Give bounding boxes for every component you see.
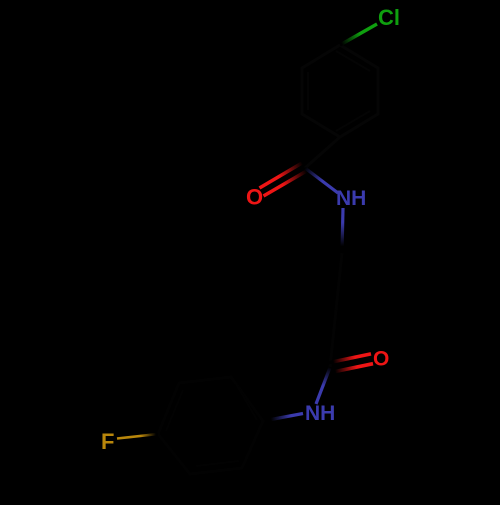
- amide 1: C7-N1 bond (blue fading): [305, 168, 338, 193]
- bond C-Cl (green fading): [340, 24, 377, 45]
- fluorophenyl aromatic inner lines: [166, 384, 257, 466]
- bond N2 to fluorophenyl ring (blue fading left): [263, 414, 303, 422]
- svg-text:O: O: [373, 348, 389, 371]
- amide 2: C10-N2 bond (blue fading): [316, 368, 330, 405]
- bond ipso to carbonyl C7: [305, 137, 340, 168]
- amide 2: C=O double bond (red fading): [329, 354, 371, 363]
- bond F to ring (gold fading): [117, 434, 158, 439]
- chain CH2-CH2 (dark): [336, 253, 342, 310]
- svg-text:O: O: [246, 185, 263, 210]
- svg-text:NH: NH: [305, 402, 335, 425]
- svg-text:NH: NH: [336, 187, 366, 210]
- fluorophenyl ring (dark skeleton): [158, 377, 263, 474]
- chlorophenyl aromatic inner lines: [308, 51, 370, 131]
- bond N1-CH2 (blue fading down): [342, 208, 343, 253]
- chlorophenyl ring (dark skeleton): [302, 45, 378, 137]
- svg-text:F: F: [101, 429, 114, 454]
- amide 1: C=O double bond (red fading): [260, 163, 303, 188]
- svg-text:Cl: Cl: [378, 5, 400, 30]
